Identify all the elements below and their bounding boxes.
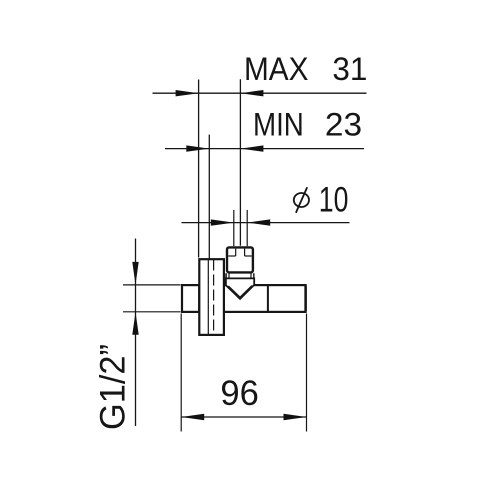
extension line pipe bottom xyxy=(123,311,181,313)
extension line 96 left xyxy=(180,314,182,432)
valve bonnet chevron xyxy=(226,278,254,299)
dimension line dia 10 xyxy=(182,222,350,224)
arrow dia10 right (tip at pipe right edge) xyxy=(247,219,270,225)
valve body horizontal rect (body + right pipe) xyxy=(224,285,306,312)
flange dashed line xyxy=(213,260,215,335)
arrow MAX right (tip at centerline) xyxy=(240,90,263,96)
nut left slot xyxy=(235,249,237,256)
svg-text:96: 96 xyxy=(220,373,259,413)
right pipe end edge xyxy=(304,286,307,311)
svg-text:23: 23 xyxy=(325,106,362,142)
extension line pipe top xyxy=(123,284,181,286)
label MIN 23 xyxy=(253,106,362,142)
dimension line MAX 31 xyxy=(153,92,367,94)
extension line A wall surface xyxy=(198,80,200,258)
dimension line G1/2 vertical xyxy=(135,239,137,427)
nut right slot xyxy=(244,249,246,256)
svg-text:MAX: MAX xyxy=(244,51,309,87)
bonnet inner V xyxy=(228,286,252,298)
flange inner line xyxy=(207,260,209,335)
svg-text:10: 10 xyxy=(319,180,349,220)
svg-text:31: 31 xyxy=(332,51,367,87)
extension line B inner wall surface xyxy=(208,135,210,262)
arrow G1/2 top (tip down at pipe top) xyxy=(132,262,138,285)
arrow MIN right (tip at centerline) xyxy=(240,145,263,151)
spindle cap nut xyxy=(227,247,253,272)
dimension line MIN 23 xyxy=(165,148,364,150)
arrow 96 right xyxy=(284,414,307,420)
svg-text:MIN: MIN xyxy=(253,106,304,142)
centerline spindle axis xyxy=(239,79,241,246)
extension line pipe left edge xyxy=(233,210,235,246)
packing band xyxy=(226,273,255,278)
arrow 96 left xyxy=(181,414,204,420)
left pipe stub xyxy=(182,285,199,312)
label MAX 31 xyxy=(244,51,367,87)
extension line 96 right xyxy=(306,314,308,432)
arrow MIN left (tip at inner wall line) xyxy=(186,145,209,151)
extension line pipe right edge xyxy=(246,210,248,246)
dimension line 96 xyxy=(181,416,306,418)
arrow MAX left (tip at wall line) xyxy=(176,90,199,96)
body / right pipe divider xyxy=(267,286,269,311)
wall flange plate xyxy=(199,259,224,335)
svg-text:G1/2”: G1/2” xyxy=(94,344,133,430)
arrow G1/2 bottom (tip up at pipe bottom) xyxy=(132,312,138,335)
label diameter 10 xyxy=(294,180,349,220)
arrow dia10 left (tip at pipe left edge) xyxy=(211,219,234,225)
